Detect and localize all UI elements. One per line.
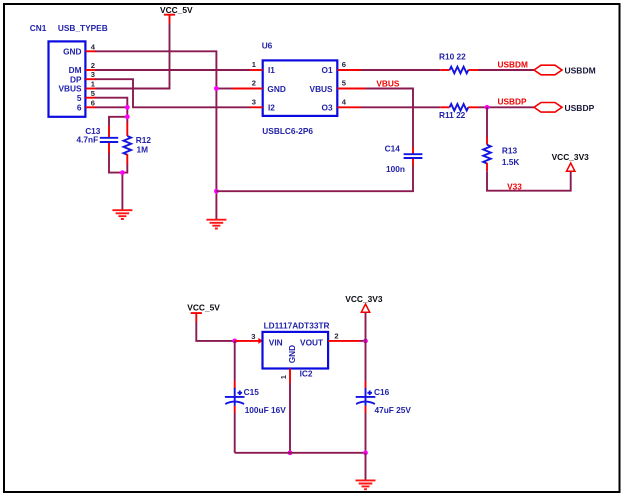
svg-text:47uF 25V: 47uF 25V (375, 405, 412, 415)
junction pin5/pin6 (125, 105, 130, 110)
svg-text:V33: V33 (507, 182, 522, 192)
svg-text:U6: U6 (262, 40, 273, 50)
port USBDP (534, 103, 595, 113)
svg-text:3: 3 (251, 332, 255, 341)
svg-text:VCC_5V: VCC_5V (160, 5, 193, 15)
svg-text:6: 6 (77, 103, 82, 113)
svg-text:IC2: IC2 (300, 368, 313, 378)
wire O1 to R10 (361, 69, 440, 71)
svg-text:2: 2 (252, 79, 256, 88)
svg-text:I1: I1 (268, 65, 275, 75)
svg-text:C14: C14 (385, 143, 401, 153)
power VCC_5V (top) (160, 5, 193, 24)
junction GND pin/rail (288, 450, 293, 455)
power VCC_5V (bottom) (187, 303, 220, 322)
capacitor C15 (225, 341, 286, 453)
svg-text:5: 5 (77, 93, 82, 103)
svg-text:USBDM: USBDM (498, 59, 529, 69)
svg-text:CN1: CN1 (30, 23, 47, 33)
junction C15 tap (232, 339, 237, 344)
capacitor C13 (77, 126, 119, 154)
power VCC_3V3 (right) (552, 152, 590, 172)
capacitor C14 (385, 143, 423, 174)
stub to VIN with arrow (235, 340, 259, 342)
stub VOUT (328, 340, 360, 342)
svg-text:USBDP: USBDP (565, 103, 595, 113)
svg-text:R13: R13 (502, 145, 518, 155)
resistor R13 (483, 137, 519, 171)
ground (bottom) (356, 480, 376, 489)
junction rail/ground (120, 170, 125, 175)
regulator IC2 body (263, 332, 329, 369)
pin arrow into VIN (258, 338, 263, 344)
wire DM net (96, 69, 251, 71)
svg-text:6: 6 (342, 60, 346, 69)
wire pin6 (96, 106, 128, 108)
junction shield/C13 (125, 114, 130, 119)
svg-text:I2: I2 (268, 103, 275, 113)
wire C13 bottom to rail (109, 153, 127, 173)
junction VOUT node (363, 339, 368, 344)
wire bottom ground rail (235, 452, 366, 454)
IC U6 body (263, 60, 338, 116)
svg-text:100uF 16V: 100uF 16V (245, 405, 287, 415)
wire C13 branch (109, 117, 127, 126)
wire VCC_5V to VIN (196, 322, 234, 341)
svg-text:VBUS: VBUS (310, 84, 334, 94)
svg-text:O3: O3 (322, 103, 333, 113)
power VCC_3V3 (bottom) (345, 294, 383, 312)
svg-text:VCC_3V3: VCC_3V3 (345, 294, 383, 304)
junction C16/ground (363, 450, 368, 455)
ground (center, U6 net) (206, 220, 226, 229)
svg-text:2: 2 (334, 332, 338, 341)
U6 pin stubs (232, 70, 366, 107)
svg-text:VIN: VIN (269, 338, 283, 348)
junction USBDP/R13 (485, 105, 490, 110)
svg-text:VCC_3V3: VCC_3V3 (552, 152, 590, 162)
svg-text:VBUS: VBUS (376, 79, 400, 89)
resistor R12 (124, 123, 152, 165)
wire R13 to V33 (487, 171, 571, 191)
CN1 pin numbers (91, 42, 96, 107)
wire to bottom ground (365, 453, 367, 480)
CN1 pin stubs (85, 51, 96, 107)
IC2 pin names (269, 338, 323, 364)
svg-text:R10 22: R10 22 (439, 52, 466, 62)
svg-text:3: 3 (91, 70, 95, 79)
svg-text:2: 2 (91, 61, 95, 70)
wire VOUT to 3V3 node (360, 340, 366, 342)
svg-text:USBLC6-2P6: USBLC6-2P6 (262, 126, 313, 136)
wire R10 to port (479, 69, 535, 71)
svg-text:GND: GND (287, 345, 297, 363)
resistor R11 (439, 104, 479, 120)
wire 3V3 vertical (365, 312, 367, 381)
svg-text:1.5K: 1.5K (502, 157, 520, 167)
wire VBUS to C14 (366, 89, 414, 148)
svg-text:O1: O1 (322, 65, 333, 75)
wire CN1 pin4 GND net (96, 51, 217, 219)
wire ground drop (121, 173, 123, 210)
wire junction down to R13 (486, 107, 488, 137)
svg-text:R11 22: R11 22 (439, 110, 466, 120)
wire C14 to ground rail (216, 166, 413, 192)
svg-text:VOUT: VOUT (300, 338, 323, 348)
svg-text:LD1117ADT33TR: LD1117ADT33TR (264, 320, 330, 330)
svg-text:4.7nF: 4.7nF (77, 135, 99, 145)
ground (left, under C13/R12) (112, 210, 132, 219)
junction U6 GND on vertical (214, 86, 219, 91)
svg-text:USBDP: USBDP (498, 97, 528, 107)
svg-text:6: 6 (91, 98, 95, 107)
wire GND pin down (289, 383, 291, 453)
svg-text:GND: GND (267, 84, 285, 94)
svg-text:USB_TYPEB: USB_TYPEB (58, 23, 108, 33)
svg-text:VCC_5V: VCC_5V (187, 303, 220, 313)
svg-text:3: 3 (252, 97, 256, 106)
U6 pin names (267, 65, 333, 112)
wire U6 GND tap (216, 88, 232, 90)
connector CN1 body (49, 41, 86, 116)
wire VCC_5V to CN1 VBUS (96, 24, 170, 89)
svg-text:C15: C15 (244, 387, 260, 397)
wire R11 to port (479, 106, 535, 108)
IC2 pin numbers (251, 332, 338, 380)
svg-text:100n: 100n (386, 164, 405, 174)
wire O3 to R11 (361, 106, 440, 108)
wire DP net (96, 79, 251, 107)
svg-text:C16: C16 (374, 387, 390, 397)
CN1 pin names (58, 47, 82, 113)
junction C14 rail (214, 189, 219, 194)
port USBDM (534, 65, 596, 75)
wire pin5 (96, 98, 128, 117)
capacitor C16 (356, 381, 412, 453)
svg-text:1M: 1M (137, 144, 149, 154)
resistor R10 (439, 52, 479, 74)
U6 pin numbers (252, 60, 347, 106)
stub IC2 GND pin (289, 369, 291, 384)
svg-text:GND: GND (63, 47, 81, 57)
wire shield node down (126, 117, 128, 123)
svg-text:USBDM: USBDM (565, 66, 596, 76)
